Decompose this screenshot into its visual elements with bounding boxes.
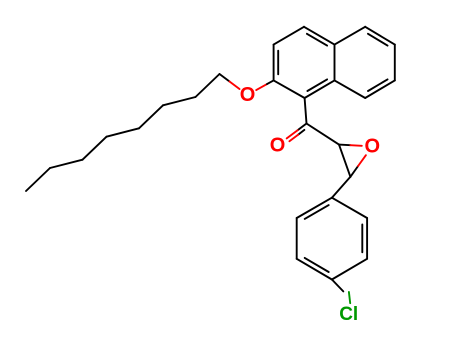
carbonyl C=O main line	[298, 124, 307, 131]
naphthalene ring B edge 5	[335, 80, 366, 98]
naphthalene ring B edge 2	[365, 27, 395, 45]
svg-text:O: O	[365, 135, 381, 157]
svg-text:O: O	[270, 134, 286, 156]
bond chain C7-C8	[196, 74, 220, 97]
naphthalene ring A edge 3	[304, 27, 335, 45]
chlorophenyl aromatic inner line 2	[361, 225, 363, 253]
svg-text:O: O	[240, 84, 256, 106]
bond chain C2-C3	[50, 160, 83, 168]
ring A aromatic inner line 1	[277, 51, 279, 75]
bond phenyl-Cl	[332, 280, 343, 292]
chlorophenyl aromatic inner line 1	[305, 205, 329, 219]
bond chain C5-C6	[139, 105, 163, 128]
chlorophenyl ring edge 2	[366, 218, 368, 259]
epoxide bond C2-O3	[339, 144, 350, 147]
carbonyl C=O second line	[298, 130, 304, 135]
chlorophenyl ring edge 3	[332, 259, 367, 280]
ring A aromatic inner line 3	[307, 79, 327, 91]
bond O1-naphthalene	[256, 84, 267, 90]
chlorophenyl aromatic inner line 3	[305, 258, 329, 272]
ring B aromatic inner line 1	[368, 34, 388, 46]
chlorophenyl ring edge 6	[297, 198, 332, 218]
bond chain C3-C4	[83, 137, 107, 160]
naphthalene ring A edge 4	[334, 45, 336, 81]
bond naphthalene-carbonyl C	[305, 98, 307, 124]
bond chain C6-C7	[163, 97, 196, 105]
bond epoxide-chlorophenyl	[332, 177, 351, 198]
naphthalene ring A edge 1	[273, 45, 275, 81]
bond chain C1-C2	[26, 168, 50, 191]
bond carbonyl-epoxide C2	[307, 124, 340, 145]
bond chain C4-C5	[107, 128, 140, 136]
chlorophenyl ring edge 5	[296, 218, 298, 259]
ring A aromatic inner line 2	[307, 34, 327, 46]
naphthalene ring B edge 4	[365, 80, 395, 98]
chlorophenyl ring edge 4	[297, 259, 332, 280]
naphthalene ring A edge 5	[305, 80, 335, 98]
naphthalene ring A edge 2	[274, 27, 304, 45]
bond C8-O1 ether	[220, 74, 230, 82]
naphthalene ring A edge 6	[274, 80, 305, 98]
naphthalene ring B edge 3	[394, 45, 396, 81]
naphthalene ring B edge 1	[335, 27, 366, 45]
epoxide bond C2-C3	[339, 145, 350, 177]
epoxide bond C3-O3	[350, 166, 358, 177]
chlorophenyl ring edge 1	[332, 198, 367, 218]
svg-text:Cl: Cl	[339, 304, 358, 325]
ring B aromatic inner line 2	[368, 79, 388, 91]
